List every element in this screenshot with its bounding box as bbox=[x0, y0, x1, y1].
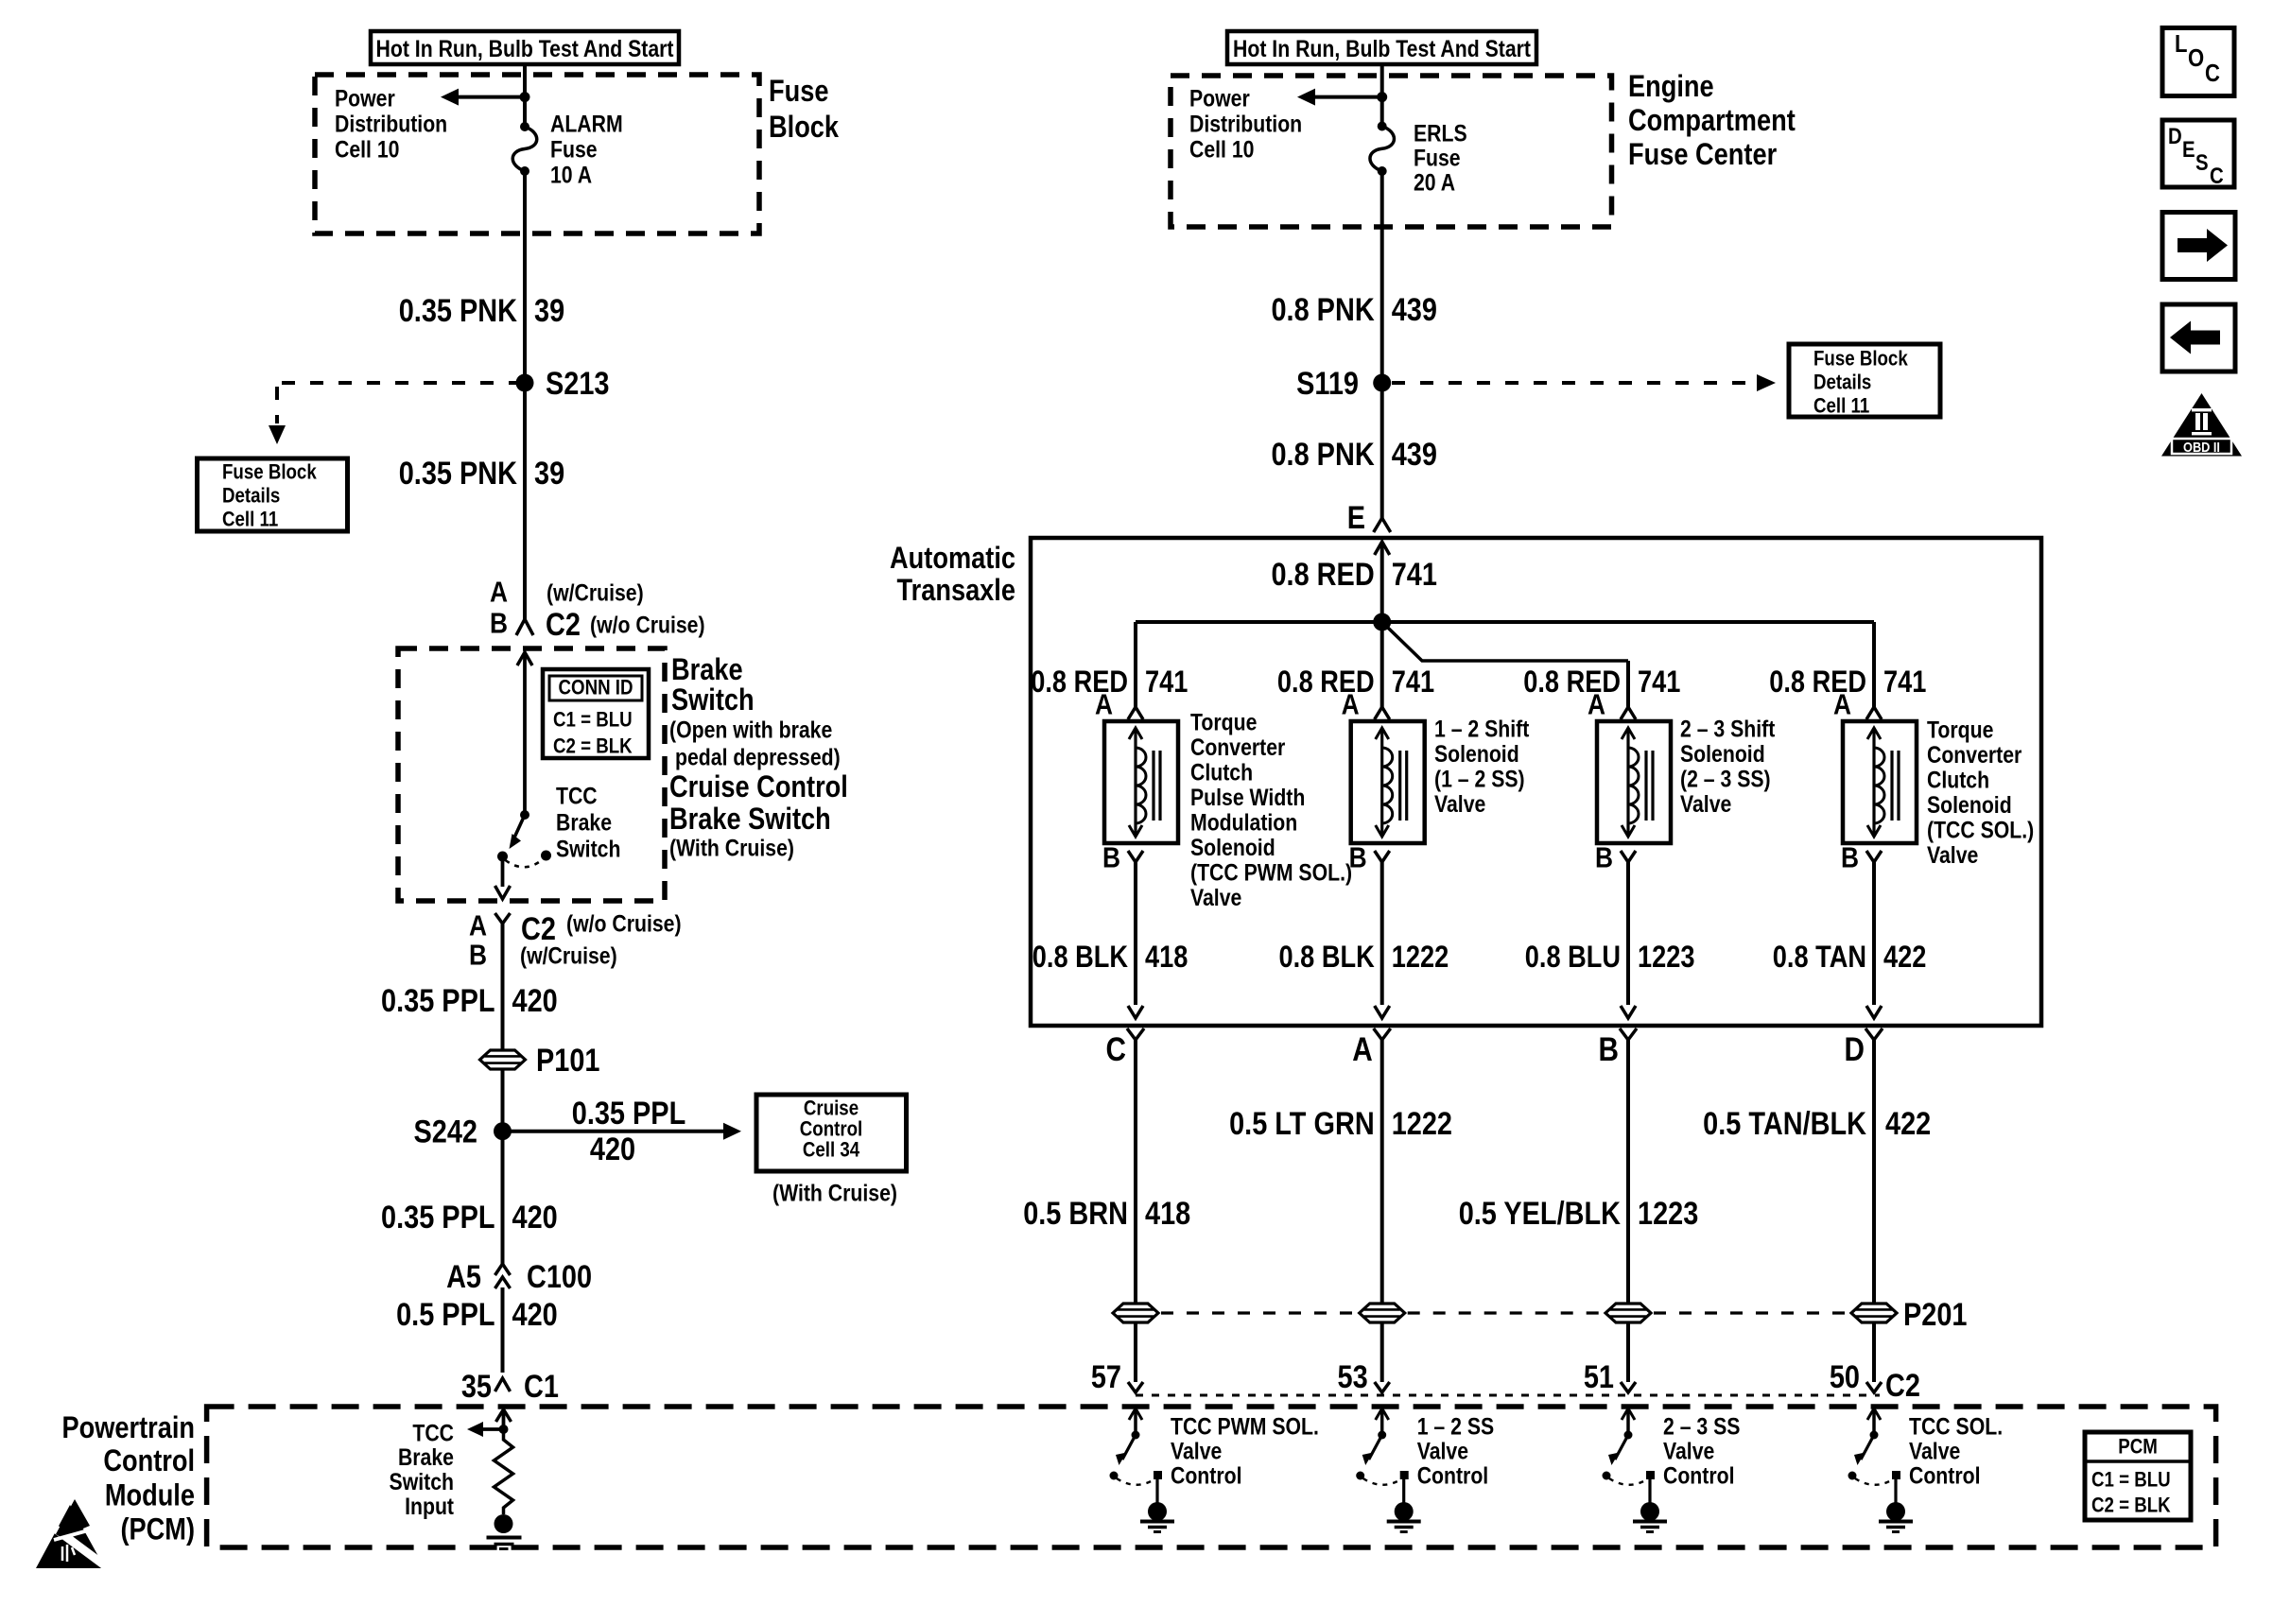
svg-text:0.8 BLU: 0.8 BLU bbox=[1525, 941, 1621, 975]
connector P101 bbox=[480, 1050, 526, 1069]
wire: power distribution branch arrow bbox=[441, 89, 525, 106]
label: 0.5 LT GRN 1222 bbox=[1229, 1105, 1452, 1142]
label: Brake Switch header bbox=[671, 653, 755, 717]
wire: P101 to S242 bbox=[501, 1069, 505, 1132]
connector pin B chevron solenoid 1 bbox=[1128, 851, 1143, 1018]
connector pin B chevron solenoid 3 bbox=[1621, 851, 1636, 1018]
svg-text:1223: 1223 bbox=[1638, 941, 1694, 975]
svg-text:Control: Control bbox=[1909, 1462, 1981, 1489]
svg-text:1 – 2 Shift: 1 – 2 Shift bbox=[1434, 716, 1530, 742]
svg-text:1 – 2 SS: 1 – 2 SS bbox=[1417, 1413, 1494, 1440]
wire: 0.8 PNK 439 (fuse to S119) bbox=[1380, 171, 1384, 383]
label: 0.35 PNK 39 (upper) bbox=[399, 292, 564, 329]
svg-text:0.5 BRN: 0.5 BRN bbox=[1023, 1195, 1128, 1232]
connector pin B chevron solenoid 4 bbox=[1866, 851, 1882, 1018]
svg-text:Fuse Block: Fuse Block bbox=[1813, 348, 1908, 371]
svg-text:(2 – 3 SS): (2 – 3 SS) bbox=[1680, 766, 1771, 792]
svg-text:(PCM): (PCM) bbox=[120, 1513, 195, 1547]
svg-text:39: 39 bbox=[534, 455, 564, 492]
node S242 bbox=[494, 1122, 512, 1140]
svg-text:Powertrain: Powertrain bbox=[61, 1411, 195, 1445]
label: 2 – 3 SS Valve Control bbox=[1663, 1413, 1740, 1489]
svg-text:Cell 10: Cell 10 bbox=[335, 136, 399, 163]
label: 1-2 Shift Solenoid (1-2 SS) Valve bbox=[1434, 716, 1530, 818]
svg-text:Switch: Switch bbox=[390, 1468, 454, 1494]
svg-text:0.5 TAN/BLK: 0.5 TAN/BLK bbox=[1703, 1105, 1866, 1142]
solenoid coil 1 bbox=[1104, 721, 1178, 843]
wire: into TCC brake switch with up arrow bbox=[517, 652, 532, 815]
fuse ERLS 20A bbox=[1370, 122, 1395, 177]
svg-text:Solenoid: Solenoid bbox=[1680, 740, 1765, 767]
switch: 1 – 2 SS driver bbox=[1356, 1408, 1421, 1532]
connector chevron output C below transaxle bbox=[1127, 1028, 1144, 1304]
svg-text:Control: Control bbox=[800, 1118, 862, 1141]
connector chevron into PCM pin 50 bbox=[1866, 1382, 1882, 1392]
svg-text:Brake Switch: Brake Switch bbox=[669, 803, 831, 837]
solenoid coil 2 bbox=[1351, 721, 1425, 843]
svg-text:A: A bbox=[469, 910, 487, 942]
engine compartment fuse center dashed enclosure bbox=[1171, 76, 1612, 227]
switch: TCC PWM SOL. driver bbox=[1110, 1408, 1175, 1532]
wire: battery feed into fuse block bbox=[523, 64, 527, 127]
svg-text:B: B bbox=[1102, 842, 1120, 874]
svg-text:S213: S213 bbox=[546, 365, 609, 402]
svg-text:50: 50 bbox=[1830, 1358, 1860, 1395]
svg-text:B: B bbox=[1595, 842, 1613, 874]
svg-text:(w/Cruise): (w/Cruise) bbox=[520, 942, 617, 969]
svg-text:0.8 RED: 0.8 RED bbox=[1523, 665, 1621, 700]
svg-text:1223: 1223 bbox=[1638, 1195, 1698, 1232]
svg-text:Solenoid: Solenoid bbox=[1190, 834, 1275, 860]
svg-text:Compartment: Compartment bbox=[1628, 104, 1796, 138]
svg-text:C: C bbox=[2205, 60, 2220, 87]
svg-text:0.35 PNK: 0.35 PNK bbox=[399, 292, 517, 329]
svg-text:Fuse: Fuse bbox=[550, 136, 598, 163]
svg-text:0.5 PPL: 0.5 PPL bbox=[396, 1296, 495, 1333]
label: ALARM Fuse 10 A bbox=[550, 111, 623, 188]
svg-text:TCC PWM SOL.: TCC PWM SOL. bbox=[1171, 1413, 1319, 1440]
wire: 0.8 PNK 439 (S119 to transaxle) bbox=[1380, 383, 1384, 518]
connector chevron into PCM pin 51 bbox=[1621, 1382, 1636, 1392]
svg-text:0.35 PPL: 0.35 PPL bbox=[572, 1095, 685, 1132]
svg-text:0.8 PNK: 0.8 PNK bbox=[1271, 291, 1374, 328]
svg-text:420: 420 bbox=[512, 1296, 558, 1333]
svg-text:E: E bbox=[1347, 499, 1365, 536]
label: 0.8 BLU 1223 branch 3 bbox=[1525, 941, 1695, 975]
svg-text:(w/o Cruise): (w/o Cruise) bbox=[566, 910, 682, 937]
connector P201 (wire 1) bbox=[1113, 1304, 1158, 1322]
svg-text:Valve: Valve bbox=[1663, 1438, 1714, 1464]
svg-text:TCC: TCC bbox=[556, 783, 598, 809]
svg-text:Cruise Control: Cruise Control bbox=[669, 770, 848, 804]
svg-text:0.8 RED: 0.8 RED bbox=[1769, 665, 1866, 700]
connector E chevron bbox=[1374, 518, 1391, 532]
pin labels A/B at C2 connector (above brake switch) bbox=[490, 577, 508, 640]
label: TCC SOL. Valve Control bbox=[1909, 1413, 2003, 1489]
svg-text:P201: P201 bbox=[1903, 1296, 1967, 1333]
svg-text:741: 741 bbox=[1883, 665, 1926, 700]
connector chevron output D below transaxle bbox=[1865, 1028, 1883, 1304]
wire: S242 branch to cruise control with arrow bbox=[503, 1123, 742, 1140]
connector chevron into PCM pin 57 bbox=[1128, 1382, 1143, 1392]
svg-text:Switch: Switch bbox=[556, 836, 620, 862]
svg-text:(w/o Cruise): (w/o Cruise) bbox=[590, 612, 705, 638]
wire: 0.8 RED 741 feed into transaxle bbox=[1375, 542, 1390, 622]
svg-text:C2: C2 bbox=[1885, 1367, 1920, 1404]
svg-text:Clutch: Clutch bbox=[1927, 767, 1989, 793]
svg-text:0.35 PPL: 0.35 PPL bbox=[381, 1199, 495, 1235]
solenoid coil 4 bbox=[1843, 721, 1917, 843]
node S119 bbox=[1373, 374, 1391, 392]
svg-text:CONN ID: CONN ID bbox=[559, 677, 633, 700]
svg-text:Distribution: Distribution bbox=[335, 111, 447, 137]
ESD sensitivity symbol bbox=[36, 1499, 110, 1569]
connector pin A chevron solenoid 3 bbox=[1621, 707, 1636, 719]
svg-text:Fuse Block: Fuse Block bbox=[222, 461, 317, 484]
label: 0.8 TAN 422 branch 4 bbox=[1773, 941, 1927, 975]
svg-text:Valve: Valve bbox=[1680, 790, 1731, 817]
wire: C100 to PCM pin 35 bbox=[501, 1287, 505, 1373]
svg-text:57: 57 bbox=[1091, 1358, 1121, 1395]
label: 0.5 PPL 420 bbox=[396, 1296, 558, 1333]
label: 0.8 BLK 418 branch 1 bbox=[1032, 941, 1189, 975]
label: Power Distribution Cell 10 (right) bbox=[1189, 85, 1302, 163]
connector P201 (wire 3) bbox=[1605, 1304, 1651, 1322]
connector C100 double chevron bbox=[495, 1264, 511, 1288]
label: Engine Compartment Fuse Center bbox=[1628, 70, 1796, 172]
svg-text:418: 418 bbox=[1145, 1195, 1190, 1232]
svg-text:1222: 1222 bbox=[1392, 1105, 1452, 1142]
svg-text:A: A bbox=[1095, 689, 1113, 721]
svg-text:Hot In Run, Bulb Test And Star: Hot In Run, Bulb Test And Start bbox=[375, 35, 673, 61]
switch: TCC brake switch bbox=[497, 810, 551, 867]
label: TCC PWM SOL. Valve Control bbox=[1171, 1413, 1319, 1489]
svg-text:Brake: Brake bbox=[556, 809, 612, 836]
svg-text:Power: Power bbox=[1189, 85, 1250, 112]
label: TCC Brake Switch Input bbox=[390, 1420, 455, 1520]
label box: Fuse Block Details Cell 11 (left) bbox=[198, 458, 348, 531]
svg-text:Brake: Brake bbox=[671, 653, 743, 687]
wire: PCM C2 connector dashed line bbox=[1136, 1394, 1880, 1397]
svg-text:(TCC SOL.): (TCC SOL.) bbox=[1927, 817, 2034, 843]
connector pin A chevron solenoid 4 bbox=[1866, 707, 1882, 719]
svg-text:E: E bbox=[2182, 137, 2195, 163]
label: 0.35 PNK 39 (lower) bbox=[399, 455, 564, 492]
svg-text:C100: C100 bbox=[527, 1258, 592, 1295]
svg-text:Cell 10: Cell 10 bbox=[1189, 136, 1254, 163]
label: 0.5 BRN 418 bbox=[1023, 1195, 1190, 1232]
label: Fuse Block bbox=[769, 75, 839, 145]
wire: P201 to PCM pin 50 bbox=[1872, 1322, 1876, 1382]
wire: 0.8 RED 741 branch 3 bbox=[1626, 661, 1630, 707]
svg-text:A5: A5 bbox=[446, 1258, 481, 1295]
wire: 0.8 RED 741 branch 2 bbox=[1380, 622, 1384, 707]
svg-text:0.8 RED: 0.8 RED bbox=[1277, 665, 1375, 700]
svg-text:Automatic: Automatic bbox=[890, 542, 1015, 576]
node S213 bbox=[516, 374, 534, 392]
label: ERLS Fuse 20 A bbox=[1414, 120, 1467, 196]
label: 0.8 BLK 1222 branch 2 bbox=[1278, 941, 1449, 975]
wire: TCC input branch arrow bbox=[467, 1422, 504, 1437]
svg-text:C2: C2 bbox=[546, 606, 581, 643]
svg-text:L: L bbox=[2175, 30, 2187, 58]
label: Automatic Transaxle bbox=[890, 542, 1015, 608]
svg-text:(1 – 2 SS): (1 – 2 SS) bbox=[1434, 766, 1525, 792]
svg-text:S242: S242 bbox=[414, 1113, 477, 1149]
svg-text:0.5 YEL/BLK: 0.5 YEL/BLK bbox=[1459, 1195, 1621, 1232]
label box: PCM C1=BLU C2=BLK bbox=[2085, 1432, 2191, 1520]
svg-text:Cell 34: Cell 34 bbox=[803, 1139, 860, 1162]
pin labels A/B at C2 connector (below brake switch) bbox=[469, 910, 487, 972]
resistor: TCC brake switch input pull-up bbox=[495, 1429, 513, 1514]
wire: TCC brake switch input arrow bbox=[496, 1409, 512, 1429]
label: Power Distribution Cell 10 (left) bbox=[335, 85, 447, 163]
svg-text:741: 741 bbox=[1145, 665, 1188, 700]
connector pin A chevron solenoid 1 bbox=[1128, 707, 1143, 719]
svg-text:B: B bbox=[469, 940, 487, 972]
svg-text:C: C bbox=[2210, 164, 2224, 189]
svg-text:Converter: Converter bbox=[1190, 734, 1285, 760]
svg-text:Control: Control bbox=[1417, 1462, 1489, 1489]
svg-text:Power: Power bbox=[335, 85, 395, 112]
brake switch dashed enclosure bbox=[398, 648, 665, 901]
svg-text:Cell 11: Cell 11 bbox=[222, 509, 278, 531]
svg-text:B: B bbox=[1841, 842, 1859, 874]
svg-text:(Open with brake: (Open with brake bbox=[669, 717, 832, 743]
svg-text:0.8 PNK: 0.8 PNK bbox=[1271, 436, 1374, 473]
label: Powertrain Control Module (PCM) bbox=[61, 1411, 195, 1546]
svg-text:A: A bbox=[1352, 1031, 1372, 1068]
svg-text:1222: 1222 bbox=[1392, 941, 1449, 975]
label: 0.8 RED 741 branch 2 bbox=[1277, 665, 1434, 700]
label: 0.5 TAN/BLK 422 bbox=[1703, 1105, 1931, 1142]
svg-text:Details: Details bbox=[222, 485, 280, 508]
svg-text:0.8 TAN: 0.8 TAN bbox=[1773, 941, 1866, 975]
connector chevron into PCM pin 53 bbox=[1375, 1382, 1390, 1392]
label: 0.8 RED 741 branch 3 bbox=[1523, 665, 1680, 700]
svg-text:2 – 3 SS: 2 – 3 SS bbox=[1663, 1413, 1740, 1440]
ground: TCC input bbox=[487, 1514, 522, 1549]
svg-text:(w/Cruise): (w/Cruise) bbox=[547, 579, 644, 606]
wire: P201 dashed gang line bbox=[1161, 1311, 1848, 1314]
solenoid coil 3 bbox=[1597, 721, 1671, 843]
connector C1 chevron at PCM bbox=[495, 1378, 511, 1391]
svg-text:D: D bbox=[1845, 1031, 1865, 1068]
wire: dashed branch from S213 to fuse block details bbox=[269, 383, 516, 444]
svg-text:741: 741 bbox=[1638, 665, 1680, 700]
svg-text:0.8 RED: 0.8 RED bbox=[1031, 665, 1128, 700]
node: TCC input junction bbox=[499, 1425, 509, 1434]
svg-text:Control: Control bbox=[1663, 1462, 1735, 1489]
svg-text:S: S bbox=[2195, 150, 2209, 176]
svg-text:C2 = BLK: C2 = BLK bbox=[553, 735, 633, 758]
svg-text:C2: C2 bbox=[521, 910, 556, 947]
wire: 0.35 PNK 39 segment (fuse to S213) bbox=[523, 171, 527, 383]
svg-text:Control: Control bbox=[103, 1444, 195, 1478]
label box: Hot In Run, Bulb Test And Start (left) bbox=[371, 31, 679, 64]
svg-text:Clutch: Clutch bbox=[1190, 759, 1253, 786]
svg-text:Fuse: Fuse bbox=[769, 75, 828, 109]
icon: forward arrow bbox=[2162, 213, 2235, 280]
wire: S242 to C100 bbox=[501, 1132, 505, 1264]
svg-text:(With Cruise): (With Cruise) bbox=[772, 1180, 897, 1206]
wire: battery feed into fuse center bbox=[1380, 64, 1384, 127]
svg-text:422: 422 bbox=[1883, 941, 1926, 975]
wire: supply bus bbox=[1136, 620, 1874, 624]
svg-text:Module: Module bbox=[105, 1479, 195, 1513]
label: 0.8 PNK 439 (lower) bbox=[1271, 436, 1436, 473]
svg-text:(TCC PWM SOL.): (TCC PWM SOL.) bbox=[1190, 859, 1352, 886]
svg-text:Block: Block bbox=[769, 111, 839, 145]
svg-text:A: A bbox=[1342, 689, 1360, 721]
wire: 0.8 RED 741 branch 4 bbox=[1872, 622, 1876, 707]
label: Torque Converter Clutch Pulse Width Modulation Solenoid (TCC PWM SOL.) Valve bbox=[1190, 709, 1352, 911]
svg-text:Pulse Width: Pulse Width bbox=[1190, 784, 1305, 810]
label box: Hot In Run, Bulb Test And Start (right) bbox=[1227, 31, 1536, 64]
svg-text:422: 422 bbox=[1885, 1105, 1931, 1142]
svg-text:P101: P101 bbox=[536, 1042, 599, 1079]
svg-text:420: 420 bbox=[512, 982, 558, 1019]
connector chevron output B below transaxle bbox=[1620, 1028, 1637, 1304]
svg-text:Valve: Valve bbox=[1417, 1438, 1468, 1464]
icon: OBD II triangle bbox=[2161, 393, 2242, 457]
svg-text:39: 39 bbox=[534, 292, 564, 329]
svg-text:Hot In Run, Bulb Test And Star: Hot In Run, Bulb Test And Start bbox=[1233, 35, 1531, 61]
svg-text:ALARM: ALARM bbox=[550, 111, 623, 137]
connector C2 chevron (above brake switch) bbox=[516, 619, 533, 635]
svg-text:Fuse: Fuse bbox=[1414, 145, 1461, 171]
svg-text:Engine: Engine bbox=[1628, 70, 1714, 104]
powertrain control module dashed enclosure bbox=[207, 1407, 2216, 1547]
label: 0.35 PPL 420 (cruise branch) bbox=[572, 1095, 685, 1167]
icon: back arrow bbox=[2162, 304, 2235, 371]
svg-text:PCM: PCM bbox=[2118, 1436, 2158, 1459]
icon: LOC reference bbox=[2162, 28, 2234, 96]
label box: Cruise Control Cell 34 bbox=[756, 1095, 907, 1171]
svg-text:0.8 BLK: 0.8 BLK bbox=[1032, 941, 1129, 975]
svg-text:Cell 11: Cell 11 bbox=[1813, 395, 1869, 418]
svg-text:Torque: Torque bbox=[1927, 717, 1993, 743]
label: 0.8 RED 741 (feed) bbox=[1271, 556, 1436, 593]
label: 0.35 PPL 420 (below S242) bbox=[381, 1199, 558, 1235]
svg-text:TCC SOL.: TCC SOL. bbox=[1909, 1413, 2003, 1440]
svg-text:20 A: 20 A bbox=[1414, 169, 1455, 196]
svg-text:Valve: Valve bbox=[1909, 1438, 1960, 1464]
svg-text:0.8 RED: 0.8 RED bbox=[1271, 556, 1374, 593]
wire: P201 to PCM pin 53 bbox=[1380, 1322, 1384, 1382]
svg-text:Converter: Converter bbox=[1927, 741, 2021, 768]
svg-text:Valve: Valve bbox=[1434, 790, 1485, 817]
svg-text:B: B bbox=[490, 608, 508, 640]
svg-text:Details: Details bbox=[1813, 371, 1871, 394]
svg-text:Control: Control bbox=[1171, 1462, 1242, 1489]
label: Torque Converter Clutch Solenoid (TCC SOL.) Valve bbox=[1927, 717, 2034, 869]
svg-text:Valve: Valve bbox=[1190, 884, 1241, 910]
fuse block dashed enclosure bbox=[315, 75, 759, 233]
svg-text:Solenoid: Solenoid bbox=[1927, 791, 2012, 818]
svg-text:OBD II: OBD II bbox=[2183, 439, 2220, 455]
wire: P201 to PCM pin 57 bbox=[1134, 1322, 1137, 1382]
svg-text:Torque: Torque bbox=[1190, 709, 1257, 735]
label: (Open with brake pedal depressed) bbox=[669, 717, 841, 770]
svg-text:Distribution: Distribution bbox=[1189, 111, 1302, 137]
svg-text:420: 420 bbox=[590, 1131, 635, 1167]
node: feed junction bbox=[520, 92, 530, 102]
svg-text:Input: Input bbox=[405, 1493, 454, 1519]
wire: 0.35 PNK 39 segment (S213 to brake switch) bbox=[523, 383, 527, 619]
node: solenoid supply junction bbox=[1373, 613, 1391, 631]
svg-text:420: 420 bbox=[512, 1199, 558, 1235]
svg-text:O: O bbox=[2188, 44, 2204, 72]
label: Cruise Control Brake Switch header bbox=[669, 770, 848, 837]
label: 0.35 PPL 420 (above P101) bbox=[381, 982, 558, 1019]
svg-text:0.35 PNK: 0.35 PNK bbox=[399, 455, 517, 492]
label: 0.8 PNK 439 (upper) bbox=[1271, 291, 1436, 328]
icon: DESC reference bbox=[2162, 120, 2234, 188]
svg-text:418: 418 bbox=[1145, 941, 1188, 975]
svg-text:C: C bbox=[1106, 1031, 1126, 1068]
label: 2-3 Shift Solenoid (2-3 SS) Valve bbox=[1680, 716, 1776, 818]
wire: 0.8 RED 741 branch 1 bbox=[1134, 622, 1137, 707]
svg-text:C1 = BLU: C1 = BLU bbox=[553, 709, 633, 732]
svg-text:51: 51 bbox=[1584, 1358, 1614, 1395]
connector chevron output A below transaxle bbox=[1374, 1028, 1391, 1304]
connector P201 (wire 4) bbox=[1851, 1304, 1897, 1322]
wire: power distribution branch arrow (right) bbox=[1297, 89, 1382, 106]
svg-text:(With Cruise): (With Cruise) bbox=[669, 835, 794, 861]
svg-text:2 – 3 Shift: 2 – 3 Shift bbox=[1680, 716, 1776, 742]
svg-text:0.35 PPL: 0.35 PPL bbox=[381, 982, 495, 1019]
svg-text:C1 = BLU: C1 = BLU bbox=[2091, 1469, 2171, 1492]
svg-text:Switch: Switch bbox=[671, 683, 755, 717]
svg-text:pedal depressed): pedal depressed) bbox=[675, 744, 841, 770]
svg-text:D: D bbox=[2168, 124, 2182, 149]
wire: dashed branch from S119 to fuse block details with arrow bbox=[1392, 374, 1776, 391]
svg-text:Fuse Center: Fuse Center bbox=[1628, 138, 1778, 172]
switch: 2 – 3 SS driver bbox=[1603, 1408, 1668, 1532]
svg-text:Solenoid: Solenoid bbox=[1434, 740, 1519, 767]
svg-text:TCC: TCC bbox=[412, 1420, 454, 1446]
svg-text:S119: S119 bbox=[1296, 365, 1359, 402]
switch: TCC SOL. driver bbox=[1848, 1408, 1914, 1532]
label box: Fuse Block Details Cell 11 (right) bbox=[1789, 344, 1940, 418]
wire: diagonal feed to 2-3 shift solenoid bbox=[1382, 622, 1628, 661]
svg-text:Valve: Valve bbox=[1171, 1438, 1222, 1464]
svg-text:C1: C1 bbox=[524, 1368, 559, 1405]
connector P201 (wire 2) bbox=[1360, 1304, 1405, 1322]
svg-text:741: 741 bbox=[1392, 665, 1434, 700]
label: 0.8 RED 741 branch 1 bbox=[1031, 665, 1188, 700]
label: 0.5 YEL/BLK 1223 bbox=[1459, 1195, 1699, 1232]
connector pin B chevron solenoid 2 bbox=[1375, 851, 1390, 1018]
svg-text:C2 = BLK: C2 = BLK bbox=[2091, 1494, 2171, 1517]
node: feed junction (right) bbox=[1377, 92, 1387, 102]
svg-text:A: A bbox=[1588, 689, 1605, 721]
label box: CONN ID C1=BLU C2=BLK bbox=[543, 669, 649, 758]
fuse ALARM 10A bbox=[512, 122, 537, 176]
svg-text:439: 439 bbox=[1392, 291, 1437, 328]
svg-text:35: 35 bbox=[461, 1368, 492, 1405]
svg-text:Modulation: Modulation bbox=[1190, 809, 1297, 836]
svg-text:53: 53 bbox=[1338, 1358, 1368, 1395]
connector pin A chevron solenoid 2 bbox=[1375, 707, 1390, 719]
svg-text:ERLS: ERLS bbox=[1414, 120, 1467, 147]
connector C2 chevron (below brake switch) bbox=[495, 913, 511, 1050]
svg-text:Transaxle: Transaxle bbox=[897, 574, 1015, 608]
svg-text:Cruise: Cruise bbox=[804, 1097, 859, 1120]
svg-text:439: 439 bbox=[1392, 436, 1437, 473]
svg-text:A: A bbox=[1833, 689, 1851, 721]
